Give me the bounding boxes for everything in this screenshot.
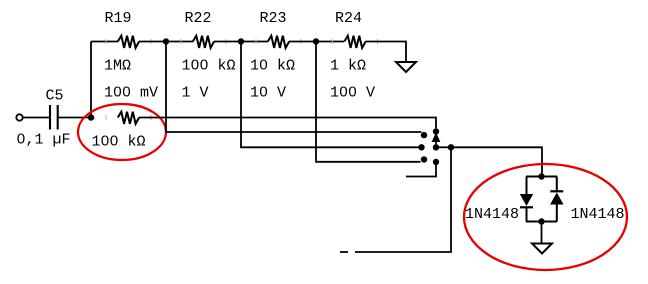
red highlight ellipse left: [78, 104, 166, 160]
wire output node down and left: [355, 147, 451, 252]
node C junction dot: [238, 38, 244, 44]
wire C5 to node A: [58, 117, 91, 119]
R19 value label 1MΩ: [104, 58, 131, 75]
resistor R21 100 kΩ in series with input: [106, 112, 151, 124]
wire pole to output node: [436, 146, 451, 148]
svg-text:R23: R23: [260, 10, 287, 27]
wire R22 to node C: [214, 41, 268, 43]
diode D1 1N4148 (left, cathode down): [520, 177, 533, 222]
svg-text:100 kΩ: 100 kΩ: [92, 134, 146, 151]
wire contact 5 stub: [406, 162, 436, 177]
wire R19 to node B: [139, 41, 193, 43]
switch contact dot position 2: [421, 132, 427, 138]
node D junction dot: [313, 38, 319, 44]
node A junction dot: [88, 114, 94, 120]
svg-text:0,1 µF: 0,1 µF: [17, 132, 71, 149]
wire node B to switch contact 2: [166, 42, 422, 133]
switch S1 wiper arrow: [432, 134, 439, 148]
wire bottom node to ground: [541, 222, 543, 244]
resistor R22: [181, 36, 226, 48]
label R23: [260, 10, 287, 27]
svg-text:R22: R22: [185, 10, 212, 27]
svg-text:1MΩ: 1MΩ: [104, 58, 131, 75]
diode clamp top node dot: [538, 173, 544, 179]
switch pole dot: [433, 144, 439, 150]
svg-text:100 mV: 100 mV: [104, 84, 158, 101]
diode D2 1N4148 (right, cathode up): [550, 177, 563, 222]
top rail wire segment left of R19: [91, 41, 118, 43]
svg-text:10 V: 10 V: [250, 84, 286, 101]
wire input to C5: [23, 117, 50, 119]
svg-text:R24: R24: [335, 10, 362, 27]
node B junction dot: [163, 38, 169, 44]
R24 value label 1 kΩ: [330, 58, 366, 75]
wire node A up to top rail: [90, 42, 92, 118]
svg-text:R19: R19: [105, 10, 132, 27]
tap label 100 V: [330, 84, 375, 101]
red highlight ellipse right: [464, 164, 627, 270]
label R24: [335, 10, 362, 27]
svg-text:10 kΩ: 10 kΩ: [250, 58, 295, 75]
svg-text:1N4148: 1N4148: [465, 206, 519, 223]
wire 100mV tap to switch top contact: [139, 118, 436, 129]
wire output node to diode clamp: [451, 147, 542, 176]
label R22: [185, 10, 212, 27]
diode clamp top rail wire: [526, 176, 557, 178]
label C5: [46, 88, 64, 105]
C5 value label 0,1 µF: [17, 132, 71, 149]
ground symbol below diodes: [532, 244, 552, 254]
wire node C to switch contact 3: [241, 42, 419, 148]
wire dash stub bottom: [340, 251, 348, 253]
svg-text:1 V: 1 V: [182, 84, 209, 101]
input terminal: [16, 114, 22, 120]
svg-text:1N4148: 1N4148: [571, 206, 625, 223]
R21 value label 100 kΩ: [92, 134, 146, 151]
capacitor C5: [50, 105, 58, 130]
switch contact dot position 3: [418, 144, 424, 150]
wire R24 to ground drop: [366, 42, 406, 63]
label R19: [105, 10, 132, 27]
resistor R23: [256, 36, 301, 48]
R22 value label 100 kΩ: [182, 58, 236, 75]
ground symbol top right: [396, 62, 416, 72]
tap label 10 V: [250, 84, 286, 101]
svg-text:1 kΩ: 1 kΩ: [330, 58, 366, 75]
wire node D to switch contact 4: [316, 42, 421, 162]
switch contact dot position 5: [433, 159, 439, 165]
R23 value label 10 kΩ: [250, 58, 295, 75]
svg-text:100 kΩ: 100 kΩ: [182, 58, 236, 75]
tap label 1 V: [182, 84, 209, 101]
output node junction dot: [448, 144, 454, 150]
diode clamp bottom node dot: [538, 218, 544, 224]
diode clamp bottom rail wire: [526, 221, 557, 223]
wire R23 to node D: [289, 41, 344, 43]
svg-text:C5: C5: [46, 88, 64, 105]
resistor R19: [106, 36, 151, 48]
switch contact dot position 4: [421, 156, 427, 162]
switch contact dot position 1: [433, 128, 439, 134]
D1 value label 1N4148: [465, 206, 519, 223]
D2 value label 1N4148: [571, 206, 625, 223]
tap label 100 mV: [104, 84, 158, 101]
resistor R24: [333, 36, 378, 48]
